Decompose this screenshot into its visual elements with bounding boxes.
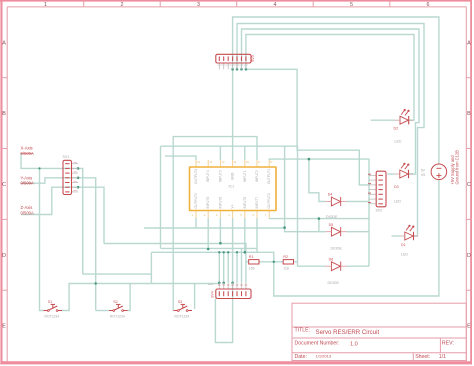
svg-text:D4: D4 — [328, 192, 333, 196]
svg-text:1: 1 — [44, 2, 47, 8]
svg-text:A: A — [2, 40, 6, 46]
svg-text:D1: D1 — [401, 243, 406, 247]
svg-text:IC1: IC1 — [229, 185, 235, 189]
svg-text:E: E — [2, 324, 6, 330]
svg-text:SV2: SV2 — [376, 209, 383, 213]
svg-text:Date:: Date: — [295, 354, 307, 360]
svg-text:DIODE: DIODE — [331, 247, 343, 251]
svg-text:2: 2 — [121, 2, 124, 8]
svg-text:B: B — [2, 111, 6, 117]
svg-text:DIODE: DIODE — [326, 215, 338, 219]
svg-text:LED: LED — [394, 200, 401, 204]
svg-text:13: 13 — [209, 160, 213, 164]
svg-text:D: D — [467, 253, 471, 259]
svg-text:REV:: REV: — [442, 341, 454, 347]
svg-text:Document Number:: Document Number: — [295, 341, 340, 347]
svg-text:OUTPUT4: OUTPUT4 — [194, 168, 198, 184]
svg-text:LED: LED — [395, 140, 402, 144]
svg-text:VS: VS — [421, 173, 426, 177]
svg-text:S1: S1 — [48, 300, 52, 304]
svg-text:INPUT5: INPUT5 — [206, 197, 210, 209]
svg-text:S2: S2 — [113, 300, 117, 304]
svg-text:OUTPUT1: OUTPUT1 — [267, 168, 271, 184]
svg-text:INPUT4: INPUT4 — [206, 170, 210, 182]
svg-text:A: A — [467, 40, 471, 46]
svg-text:D5: D5 — [329, 223, 334, 227]
svg-text:14: 14 — [197, 160, 201, 164]
svg-text:D3: D3 — [394, 185, 399, 189]
svg-text:ROT1234: ROT1234 — [175, 315, 190, 319]
svg-text:D: D — [2, 253, 6, 259]
svg-text:12: 12 — [221, 160, 225, 164]
svg-text:Servo RES/ERR Circuit: Servo RES/ERR Circuit — [316, 329, 380, 336]
svg-text:C: C — [2, 182, 6, 188]
svg-text:4: 4 — [274, 2, 277, 8]
svg-text:X-Axis: X-Axis — [21, 146, 33, 151]
svg-text:R2: R2 — [283, 255, 288, 259]
svg-text:B: B — [467, 111, 471, 117]
svg-text:GND: GND — [231, 172, 235, 180]
svg-text:ROT1234: ROT1234 — [45, 315, 60, 319]
svg-text:0/500A: 0/500A — [21, 210, 34, 215]
svg-text:TITLE:: TITLE: — [295, 327, 311, 333]
svg-text:INPUT2: INPUT2 — [255, 170, 259, 182]
svg-text:DIODE: DIODE — [328, 281, 340, 285]
svg-text:10: 10 — [246, 160, 250, 164]
svg-text:OUTPUT3: OUTPUT3 — [194, 193, 198, 209]
svg-text:118: 118 — [283, 267, 289, 271]
svg-text:INPUT8: INPUT8 — [243, 197, 247, 209]
svg-text:SV3: SV3 — [251, 55, 255, 62]
svg-text:E: E — [467, 324, 471, 330]
svg-text:1.0: 1.0 — [350, 342, 358, 348]
svg-text:D6: D6 — [329, 257, 334, 261]
svg-text:159: 159 — [249, 267, 255, 271]
svg-text:INPUT1: INPUT1 — [243, 170, 247, 182]
svg-text:INPUT3: INPUT3 — [218, 170, 222, 182]
svg-text:D2: D2 — [394, 127, 399, 131]
svg-text:5: 5 — [350, 2, 353, 8]
svg-text:5V: 5V — [421, 169, 426, 173]
svg-text:R1: R1 — [249, 255, 254, 259]
svg-text:INPUT7: INPUT7 — [255, 197, 259, 209]
svg-text:ROT1234: ROT1234 — [110, 315, 125, 319]
svg-text:6: 6 — [427, 2, 430, 8]
svg-text:SV1: SV1 — [63, 155, 70, 159]
svg-text:C: C — [467, 182, 471, 188]
svg-text:Ground from C12B: Ground from C12B — [455, 150, 460, 185]
svg-text:1/1/2013: 1/1/2013 — [316, 354, 332, 359]
svg-text:3: 3 — [197, 2, 200, 8]
svg-text:OUTPUT2: OUTPUT2 — [267, 193, 271, 209]
svg-text:Sheet:: Sheet: — [415, 354, 430, 360]
svg-text:SV4: SV4 — [211, 291, 215, 298]
svg-text:S3: S3 — [178, 300, 182, 304]
svg-text:11: 11 — [234, 160, 237, 164]
svg-text:INPUT6: INPUT6 — [218, 197, 222, 209]
svg-text:V+: V+ — [231, 204, 235, 208]
svg-text:LED: LED — [401, 253, 408, 257]
svg-text:1/1: 1/1 — [439, 354, 446, 360]
